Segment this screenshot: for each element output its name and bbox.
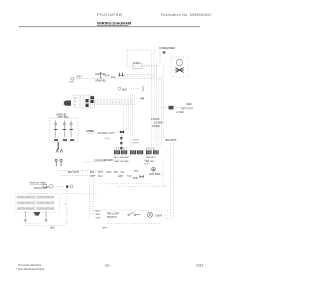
svg-text:BLK WHT: BLK WHT: [68, 171, 80, 174]
header rule: [19, 26, 200, 28]
svg-text:TAN: TAN: [127, 175, 132, 178]
svg-text:G: G: [74, 105, 76, 107]
connector block E: [146, 150, 152, 154]
motor triangle symbol: [162, 52, 166, 55]
svg-text:BLK ORN WHT: BLK ORN WHT: [114, 157, 130, 159]
small terminal circle: [70, 185, 73, 188]
power plug: [64, 101, 72, 106]
wire dotted left of tstat: [160, 107, 168, 109]
svg-text:BLK: BLK: [123, 88, 128, 91]
svg-text:CONDENSER: CONDENSER: [159, 47, 175, 50]
cabinet box bottom edge: [116, 185, 168, 187]
dark corner mark: [120, 131, 122, 133]
harness verticals left pack: [123, 93, 133, 146]
timer motor circle: [49, 185, 53, 189]
freezer tstat components: [55, 159, 62, 166]
svg-text:1212: 1212: [196, 264, 204, 268]
wire timer row dotted: [54, 185, 65, 187]
dark tick pair: [141, 97, 145, 100]
svg-text:BLK: BLK: [103, 132, 108, 135]
lamp row bottom dotted: [108, 223, 162, 225]
defrost limit thermostat: [34, 212, 41, 216]
svg-text:GRN: GRN: [96, 217, 101, 219]
heater lead right: [45, 211, 48, 222]
dark lead down: [57, 142, 59, 150]
terminal column 4: [90, 95, 95, 108]
svg-text:BOARD: BOARD: [105, 159, 114, 162]
wire dotted right of tstat: [174, 107, 188, 109]
svg-text:LIGHT: LIGHT: [155, 214, 163, 217]
connector block C: [130, 150, 136, 154]
connector edge tick 1: [120, 137, 122, 139]
compressor strip ticks: [92, 100, 131, 103]
connector squiggle: [142, 86, 145, 91]
svg-text:L5 BLU: L5 BLU: [152, 125, 160, 128]
cord pin 3: [70, 121, 72, 138]
compressor strip dotted outline: [90, 99, 135, 104]
svg-text:RED BLU: RED BLU: [146, 157, 156, 159]
svg-text:GRN YEL PNK: GRN YEL PNK: [114, 161, 129, 163]
svg-text:8 9 10 11: 8 9 10 11: [146, 148, 156, 150]
svg-text:RD: RD: [114, 171, 118, 174]
svg-text:BLK: BLK: [96, 211, 101, 213]
connector block B: [121, 150, 127, 154]
svg-text:PNK: PNK: [133, 177, 138, 180]
lamp row top dotted: [94, 209, 168, 211]
svg-text:GRN: GRN: [76, 76, 82, 79]
cord pin 1: [55, 121, 57, 138]
svg-text:Publication No. 5995502567: Publication No. 5995502567: [161, 13, 212, 17]
cabinet box right edge: [162, 158, 164, 186]
svg-text:DEFROST TIMER: DEFROST TIMER: [30, 183, 47, 185]
svg-text:* Non-Illustrated Parts: * Non-Illustrated Parts: [16, 267, 45, 271]
fan dashed enclosure: [171, 57, 188, 77]
svg-text:FFU21M7HW: FFU21M7HW: [97, 13, 123, 17]
wire heater bottom dotted short: [26, 222, 40, 224]
svg-text:HTR: HTR: [44, 187, 49, 190]
svg-text:WIRING DIAGRAM: WIRING DIAGRAM: [97, 21, 131, 26]
run capacitor circle: [118, 87, 121, 90]
wire heater bottom dotted long: [25, 222, 67, 226]
cord pin crossbars: [54, 128, 73, 130]
harness verticals right pack: [151, 52, 163, 146]
terminal column 1: [74, 95, 80, 108]
defrost thermostat symbol right: [169, 106, 174, 110]
wire middle dotted row: [122, 75, 163, 77]
light switch symbol: [128, 212, 141, 215]
center dashes: [115, 132, 120, 134]
wire dashed to right upper: [57, 170, 100, 172]
svg-text:WHT: WHT: [98, 171, 104, 174]
svg-text:WHT: WHT: [105, 74, 111, 77]
connector edge tick 3: [120, 147, 122, 149]
svg-text:WHT: WHT: [102, 227, 108, 229]
connector block F: [153, 150, 159, 154]
svg-text:4.5KΩ: 4.5KΩ: [86, 129, 95, 133]
svg-text:BLK: BLK: [90, 171, 95, 174]
timer contact box: [43, 185, 47, 188]
svg-text:BLK: BLK: [50, 227, 55, 230]
svg-text:1 2 3 4 5 6 7: 1 2 3 4 5 6 7: [114, 148, 127, 150]
svg-text:WHT: WHT: [96, 214, 102, 216]
svg-text:P4 P5: P4 P5: [133, 140, 140, 142]
connector block A: [114, 150, 120, 154]
svg-text:115V 60HZ: 115V 60HZ: [149, 174, 161, 176]
svg-text:( ) ( ): ( ) ( ): [105, 137, 111, 140]
terminal column 2: [80, 95, 83, 108]
connector edge tick 2: [120, 142, 122, 144]
wire dashed to right lower: [62, 175, 96, 177]
svg-text:1 3 5: 1 3 5: [144, 160, 150, 162]
power cord dashed box: [50, 118, 79, 142]
wire upper dotted row: [124, 73, 154, 75]
svg-text:BLU: BLU: [98, 175, 103, 178]
dotted stub bottom-left: [84, 161, 91, 163]
fan blade symbol: [175, 68, 184, 73]
svg-text:L2 RED: L2 RED: [176, 112, 184, 114]
defrost heater zigzag group 2: [37, 196, 55, 210]
svg-text:WHT: WHT: [90, 175, 96, 178]
svg-text:GRY: GRY: [118, 175, 124, 178]
column 3 contact lower: [86, 104, 89, 107]
svg-text:ORN: ORN: [97, 132, 103, 135]
svg-text:SWITCH: SWITCH: [107, 216, 117, 219]
small relay box: [133, 64, 142, 69]
svg-text:BLK: BLK: [111, 76, 116, 79]
column 4 contact lower: [90, 100, 93, 103]
label dark tab: [118, 73, 124, 76]
svg-text:P6 P7: P6 P7: [133, 143, 140, 145]
heater dotted enclosure: [16, 194, 60, 213]
svg-text:DEF TSTAT: DEF TSTAT: [181, 107, 194, 110]
svg-text:J1 J2: J1 J2: [144, 163, 150, 165]
lamp symbol: [147, 212, 152, 217]
vertical connector edge: [120, 135, 122, 151]
ground screw symbol: [152, 167, 156, 171]
bracket left: [100, 73, 101, 79]
ground terminal circle: [71, 77, 74, 80]
heater lead left: [24, 211, 27, 222]
svg-text:WHT BLK: WHT BLK: [58, 116, 69, 119]
svg-text:ORN: ORN: [106, 171, 112, 174]
left vertical harness wire: [66, 189, 68, 225]
connector block D: [137, 150, 143, 154]
title underline: [97, 24, 129, 26]
condenser fan dashed box: [127, 50, 160, 66]
cord terminal bars dark: [54, 139, 74, 141]
terminal column 3: [85, 95, 89, 108]
defrost heater zigzag group 1: [17, 196, 35, 210]
wire run cap dotted: [131, 88, 141, 90]
svg-text:GRN/YEL: GRN/YEL: [95, 80, 107, 83]
junction dot dark: [66, 185, 69, 188]
cabinet dotted crossbar: [102, 183, 150, 185]
column 3 contact upper: [86, 99, 89, 102]
dotted row under label: [88, 132, 94, 134]
column 4 contact upper: [90, 96, 94, 99]
wire timer dotted short: [28, 192, 48, 194]
wire mid dotted: [62, 192, 97, 194]
svg-text:PNK: PNK: [134, 171, 139, 173]
svg-text:BLK: BLK: [70, 82, 75, 84]
door switch arrows: [56, 149, 63, 152]
heater center divider: [34, 195, 36, 212]
cabinet left verticals: [88, 177, 90, 218]
cord pin 2: [63, 121, 65, 138]
wire horizontal at fan box bottom: [144, 64, 156, 66]
wire lower dotted row: [75, 78, 164, 80]
svg-text:YEL: YEL: [120, 171, 125, 174]
svg-text:-13-: -13-: [104, 264, 110, 268]
right vertical pair wires: [164, 143, 174, 219]
svg-text:RED: RED: [187, 103, 192, 106]
condenser fan motor circle: [176, 59, 182, 65]
left edge tick pair: [140, 175, 143, 178]
svg-text:BLK/WHT: BLK/WHT: [166, 139, 178, 142]
svg-text:WHT: WHT: [109, 132, 115, 135]
